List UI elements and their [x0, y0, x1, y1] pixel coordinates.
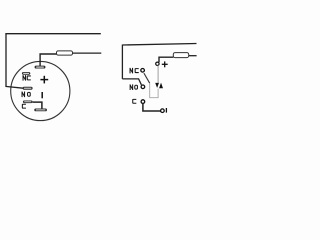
wire left circuit left vertical: [5, 33, 7, 86]
wire from R2 to right: [189, 55, 197, 57]
label NO (right): [130, 85, 137, 90]
label - (right, vertical bar): [165, 108, 167, 113]
label + (right): [162, 61, 168, 67]
pushbutton body (rear view circle): [11, 61, 70, 120]
wire right circuit left vertical: [121, 45, 123, 79]
label + (left button): [40, 76, 48, 84]
wire right circuit top horizontal: [122, 44, 196, 46]
wire plus terminal to resistor: [159, 57, 173, 62]
terminal dot minus: [161, 109, 165, 113]
wire right circuit to NO contact: [122, 79, 141, 85]
wire plus terminal down to LED: [157, 65, 159, 83]
contact dot NC: [141, 69, 145, 73]
terminal lug LED- (bottom): [34, 109, 47, 112]
label C (right): [133, 99, 136, 103]
resistor R1 (left): [57, 51, 73, 55]
wire left circuit to NO lug: [5, 86, 23, 88]
contact dot NO: [141, 85, 145, 89]
terminal lug LED+ (top): [35, 66, 46, 69]
terminal dot plus: [156, 62, 159, 65]
label NC (left): [23, 76, 30, 81]
wire C to minus terminal: [143, 103, 161, 111]
wire from button top terminal up and right: [40, 54, 56, 66]
wire jumper C to bottom lug: [33, 102, 42, 109]
switch arm from NC: [144, 73, 150, 83]
wire left circuit top horizontal: [5, 33, 100, 35]
terminal lug NC: [22, 72, 30, 75]
wire arm to LED cathode: [150, 83, 158, 98]
label - (left button, vertical bar): [41, 92, 43, 98]
resistor R2 (right): [173, 53, 188, 58]
wire from R1 to right: [73, 52, 102, 54]
terminal lug C: [23, 101, 33, 104]
label C (left): [22, 104, 25, 108]
terminal lug NO: [23, 87, 33, 90]
label NO (left): [22, 92, 30, 97]
label NC (right): [130, 68, 138, 73]
LED D1 (anti-parallel pair): [155, 83, 163, 89]
contact dot C: [141, 100, 145, 104]
